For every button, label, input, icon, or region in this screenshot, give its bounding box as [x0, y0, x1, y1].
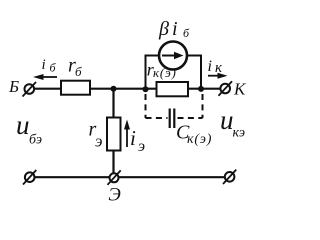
- svg-text:i: i: [172, 18, 178, 40]
- current source U1 circle: [159, 42, 187, 70]
- svg-text:к(э): к(э): [187, 132, 212, 147]
- wire: bottom line Э rail: [34, 176, 225, 178]
- wire: current source left loop: [146, 56, 160, 91]
- svg-text:э: э: [138, 138, 145, 155]
- svg-text:к: к: [215, 60, 223, 76]
- svg-text:бэ: бэ: [29, 133, 42, 148]
- junction node at r_б / r_э: [111, 86, 117, 92]
- svg-text:i: i: [42, 57, 46, 73]
- label i_э: [130, 126, 145, 155]
- terminal Б: [23, 82, 37, 97]
- arrow i_к: [208, 73, 228, 79]
- label К: [233, 80, 247, 99]
- arrow i_э: [124, 120, 130, 148]
- terminal bottom-left: [23, 170, 36, 185]
- capacitor dashed branch right vertical: [202, 94, 204, 118]
- capacitor C_к(э) plates: [170, 109, 175, 129]
- label Э: [108, 185, 120, 206]
- svg-text:К: К: [233, 80, 247, 99]
- svg-text:Э: Э: [108, 185, 120, 206]
- terminal Э: [108, 170, 121, 184]
- svg-text:u: u: [16, 110, 30, 140]
- label C_к(э): [176, 122, 212, 148]
- svg-text:б: б: [183, 26, 190, 40]
- label r_б: [68, 55, 82, 80]
- resistor R r_б: [61, 81, 90, 95]
- label u_кэ: [220, 105, 245, 141]
- capacitor dashed branch bottom right: [178, 117, 203, 119]
- svg-text:э: э: [95, 132, 103, 151]
- arrow i_б: [33, 74, 57, 80]
- label r_к(э): [147, 60, 177, 80]
- junction node right of r_к(э): [198, 86, 204, 92]
- svg-text:кэ: кэ: [233, 126, 246, 141]
- capacitor dashed branch bottom left: [146, 117, 168, 119]
- label βi_б: [158, 18, 190, 40]
- wire: middle vertical branch: [112, 89, 114, 174]
- terminal bottom-right: [223, 170, 236, 184]
- label i_к: [208, 58, 224, 76]
- junction node left of r_к(э): [143, 86, 149, 92]
- label r_э: [89, 119, 103, 151]
- resistor R r_э (vertical): [107, 118, 121, 151]
- svg-text:β: β: [158, 18, 169, 40]
- svg-text:Б: Б: [8, 77, 19, 96]
- svg-text:б: б: [50, 61, 57, 75]
- terminal К: [219, 81, 233, 96]
- label i_б: [42, 57, 57, 75]
- svg-text:i: i: [208, 58, 212, 75]
- wire: main top line Б to К: [33, 88, 221, 90]
- svg-text:i: i: [130, 126, 136, 150]
- current source arrow: [162, 52, 184, 60]
- capacitor C_к(э) dashed branch left vertical: [145, 94, 147, 118]
- resistor R r_к(э): [157, 82, 189, 96]
- label u_бэ: [16, 110, 42, 148]
- wire: current source right loop: [187, 56, 201, 91]
- svg-text:б: б: [75, 64, 82, 79]
- svg-text:u: u: [220, 105, 234, 135]
- label Б: [8, 77, 19, 96]
